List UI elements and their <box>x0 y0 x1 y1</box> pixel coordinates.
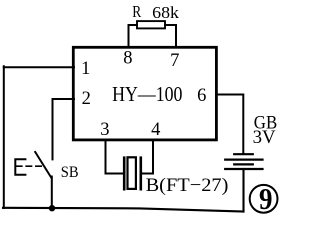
battery GB plate short <box>234 163 253 165</box>
battery GB plate long bottom <box>225 168 262 170</box>
switch SB push actuator <box>15 159 25 175</box>
svg-text:3: 3 <box>100 120 109 140</box>
svg-text:3V: 3V <box>253 127 276 148</box>
battery GB plate short top <box>234 153 253 155</box>
op-amp U1 HY-100 IC body <box>73 47 216 140</box>
piezo B right electrode <box>140 158 143 190</box>
switch SB actuator dashed link <box>17 165 44 167</box>
svg-text:7: 7 <box>170 51 179 71</box>
piezo B left electrode <box>123 158 126 190</box>
wire battery to bottom rail <box>242 169 244 212</box>
resistor R1 body <box>137 21 165 28</box>
piezo B crystal body <box>128 157 136 189</box>
wire pin 1 to left rail <box>4 66 74 68</box>
battery GB plate long <box>225 159 262 161</box>
svg-text:68k: 68k <box>152 3 179 22</box>
wire pin 4 to piezo <box>142 140 153 174</box>
figure number circle <box>250 185 278 213</box>
node junction dot switch/bottom rail <box>49 205 55 211</box>
wire bottom rail <box>3 208 244 212</box>
wire pin 3 to piezo <box>106 140 123 174</box>
svg-text:B(FT−27): B(FT−27) <box>146 175 229 196</box>
switch SB blade <box>35 152 51 178</box>
svg-text:9: 9 <box>259 181 273 216</box>
svg-text:SB: SB <box>61 164 79 181</box>
svg-text:HY—100: HY—100 <box>112 82 182 106</box>
wire resistor right lead to pin 7 <box>165 25 176 47</box>
svg-text:6: 6 <box>197 86 206 106</box>
svg-text:4: 4 <box>151 120 160 140</box>
wire resistor left lead to pin 8 <box>129 25 138 47</box>
svg-text:R: R <box>132 2 142 21</box>
wire pin 2 to switch <box>53 99 75 159</box>
svg-text:8: 8 <box>123 49 132 69</box>
svg-text:1: 1 <box>81 59 90 79</box>
wire switch to bottom rail <box>51 177 53 209</box>
wire left rail vertical <box>3 66 5 208</box>
wire pin 6 to battery <box>217 95 243 154</box>
svg-text:2: 2 <box>82 89 91 109</box>
